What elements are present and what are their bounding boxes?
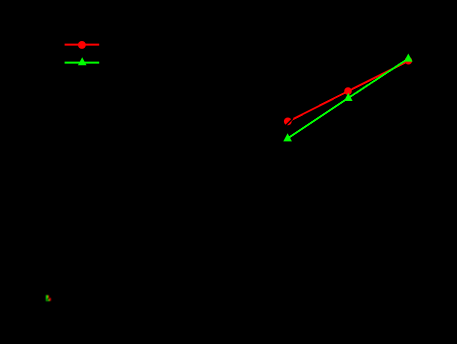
legend red sample line — [65, 44, 100, 46]
corner dark patch — [46, 299, 48, 301]
corner red blob — [49, 298, 51, 301]
bottom-left corner artifact group — [46, 295, 51, 301]
red marker point 1 — [284, 118, 292, 126]
corner green vertical bar — [46, 295, 48, 300]
green marker point 2 — [344, 93, 353, 101]
green marker point 1 — [283, 133, 292, 141]
legend red circle marker — [78, 41, 86, 49]
black slash over red point 1 — [285, 118, 293, 126]
red marker point 2 — [344, 87, 352, 95]
legend green triangle marker — [78, 57, 87, 65]
corner green bottom patch — [46, 299, 50, 301]
corner red top bit — [48, 295, 49, 297]
legend green sample line — [65, 62, 100, 64]
red series polyline — [288, 61, 409, 122]
green marker point 3 — [404, 54, 413, 62]
green series polyline — [288, 59, 409, 139]
red marker point 3 — [405, 57, 413, 65]
